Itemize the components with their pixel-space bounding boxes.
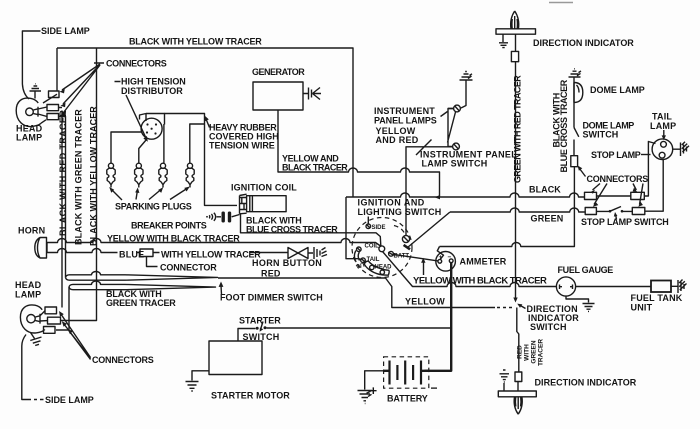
switch arm to green bus (404, 212, 450, 249)
horn button contacts (288, 248, 313, 259)
svg-text:TAIL: TAIL (652, 112, 672, 122)
wire: side terminal stub (367, 217, 369, 225)
direction indicator bottom: arm bar (498, 391, 536, 397)
distributor label pointer (115, 82, 148, 142)
connector: stop lamp (571, 156, 578, 167)
wire: left column vertical black/green (59, 117, 66, 278)
label: GREEN (531, 214, 564, 224)
svg-text:TRACER: TRACER (538, 339, 545, 366)
label: HIGH TENSION DISTRIBUTOR (121, 77, 186, 97)
battery plates (384, 361, 429, 385)
svg-text:SPARKING PLUGS: SPARKING PLUGS (115, 202, 192, 212)
connectors: black wire left (585, 192, 597, 199)
label: RED (261, 269, 281, 279)
label: GENERATOR (252, 67, 305, 77)
switch centre terminal (379, 246, 385, 252)
svg-text:COIL: COIL (365, 244, 380, 250)
svg-text:+: + (439, 254, 443, 261)
ground: bottom headlamp (angled) (30, 333, 41, 346)
svg-text:AND RED: AND RED (376, 135, 419, 145)
svg-text:GENERATOR: GENERATOR (252, 67, 305, 77)
svg-text:BLUE CROSS TRACER: BLUE CROSS TRACER (246, 225, 338, 235)
ignition and lighting switch dashed circle (352, 218, 412, 278)
dashed lever arc top right (394, 226, 406, 237)
starter motor box (209, 341, 262, 375)
pointers: bottom connectors label (59, 311, 91, 360)
horn body (35, 238, 47, 259)
label: BREAKER POINTS (131, 221, 207, 231)
label: BLACK WITH YELLOW TRACER vertical (89, 106, 99, 246)
connectors: green wire right (632, 208, 645, 215)
label: HORN (18, 226, 45, 236)
direction indicator bottom: leaf arrow (514, 397, 522, 414)
label: TAIL LAMP (650, 112, 676, 132)
svg-text:PANEL LAMPS: PANEL LAMPS (374, 116, 437, 126)
junction arrowhead at bus joint (435, 195, 441, 199)
connector: bottom headlamp 3 (44, 327, 56, 334)
label: FUEL TANK UNIT (631, 293, 683, 313)
label: YELLOW WITH BLACK TRACER (batt) (413, 276, 547, 287)
svg-text:LAMP: LAMP (15, 290, 41, 300)
wire: left column vertical black/yellow (61, 48, 97, 321)
label: BLACK WITH GREEN TRACER (dimmer) (106, 289, 176, 308)
dome lamp (574, 83, 583, 103)
wire: horn bottom blue/yellow (47, 249, 288, 253)
label: DIRECTION INDICATOR top (533, 38, 634, 48)
svg-text:GREEN: GREEN (531, 214, 564, 224)
label: BATTERY (387, 394, 428, 404)
svg-text:DIRECTION INDICATOR: DIRECTION INDICATOR (533, 38, 634, 48)
pointer: tail lamp label arrow (662, 130, 666, 140)
svg-text:TENSION WIRE: TENSION WIRE (209, 141, 275, 151)
label: STOP LAMP (591, 150, 641, 160)
HT lead pointer (heavy rubber label) (205, 116, 210, 128)
label: HORN BUTTON (252, 258, 322, 268)
wire: tail feed from black bus (346, 197, 361, 259)
label: YELLOW AND RED (376, 126, 419, 145)
svg-text:SIDE LAMP: SIDE LAMP (45, 395, 94, 405)
sparking plug 4 (186, 163, 194, 187)
label: DOME LAMP SWITCH (583, 121, 635, 140)
svg-text:−: − (431, 381, 438, 395)
fuel tank unit box (651, 281, 671, 293)
svg-text:LAMP: LAMP (650, 121, 676, 131)
connector: top headlamp 3 (47, 114, 59, 120)
pointer: yellow with black tracer label arrow (421, 258, 425, 275)
pointer: stop lamp switch label (614, 212, 618, 220)
label: FOOT DIMMER SWITCH (220, 293, 323, 303)
wire: battery cable (425, 263, 452, 371)
svg-text:RED: RED (517, 345, 524, 359)
wire: green w red tracer main vertical (513, 34, 517, 302)
connector bracket pointer (147, 257, 158, 267)
ground: battery (358, 371, 384, 404)
svg-text:DOME LAMP: DOME LAMP (590, 85, 645, 95)
switch tail terminal (361, 258, 366, 263)
svg-text:HIGH TENSION: HIGH TENSION (121, 77, 186, 87)
label: BLACK WITH RED TRACER vertical (58, 110, 68, 236)
foot dimmer arrow top (red) (66, 272, 218, 281)
pointer: direction indicator switch label (517, 304, 525, 309)
svg-text:FUEL TANK: FUEL TANK (631, 293, 683, 303)
svg-text:GREEN TRACER: GREEN TRACER (106, 298, 176, 308)
connector: bottom headlamp 1 (45, 307, 57, 314)
instrument panel lamp bottom (453, 143, 460, 150)
plug lead 3 (163, 124, 165, 163)
ground: tail lamp (673, 142, 689, 156)
svg-text:STARTER MOTOR: STARTER MOTOR (211, 391, 290, 401)
pointers: connectors label to rects (60, 63, 105, 116)
label: YELLOW AND BLACK TRACER (282, 154, 348, 173)
label: AMMETER (460, 257, 507, 267)
label: STARTER SWITCH (239, 316, 281, 343)
label: CONNECTORS top left (106, 59, 167, 69)
svg-text:SWITCH: SWITCH (243, 332, 280, 342)
svg-text:CONNECTORS: CONNECTORS (92, 355, 154, 365)
label: BLACK WITH vertical (552, 93, 562, 148)
svg-text:SWITCH: SWITCH (530, 322, 567, 332)
breaker points symbol (206, 212, 239, 223)
label: SIDE LAMP bottom (45, 395, 94, 405)
label: SIDE LAMP top (41, 26, 90, 36)
svg-text:BLACK WITH YELLOW TRACER: BLACK WITH YELLOW TRACER (89, 106, 99, 246)
pointers: connectors label right (578, 166, 644, 207)
svg-text:YELLOW WITH BLACK TRACER: YELLOW WITH BLACK TRACER (107, 234, 240, 244)
label: FUEL GAUGE (558, 265, 614, 275)
svg-text:LIGHTING SWITCH: LIGHTING SWITCH (358, 207, 442, 217)
svg-text:HORN: HORN (18, 226, 45, 236)
svg-text:BATTERY: BATTERY (387, 394, 428, 404)
instrument panel lamp top (448, 105, 460, 112)
scan mark top edge (549, 2, 573, 4)
wire: yellow dashes into direction switch (497, 307, 512, 309)
plug lead 2 (139, 140, 147, 164)
svg-text:TAIL: TAIL (367, 257, 380, 263)
ground: instrument panel (460, 72, 473, 81)
svg-text:FUEL GAUGE: FUEL GAUGE (558, 265, 614, 275)
svg-text:BLUE: BLUE (119, 250, 144, 260)
svg-text:WITH YELLOW TRACER: WITH YELLOW TRACER (161, 250, 261, 260)
svg-text:BREAKER POINTS: BREAKER POINTS (131, 221, 207, 231)
label: HEAD LAMP bottom (15, 280, 42, 300)
switch head contact bar (354, 251, 389, 276)
svg-text:LAMP SWITCH: LAMP SWITCH (422, 159, 488, 169)
svg-text:AMMETER: AMMETER (460, 257, 507, 267)
svg-text:DISTRIBUTOR: DISTRIBUTOR (121, 86, 183, 96)
battery polarity (370, 381, 438, 398)
ground: fuel tank unit (671, 280, 687, 294)
label: DOME LAMP (590, 85, 645, 95)
connectors: green wire left (585, 208, 596, 215)
wire: top headlamp rect2 link (43, 94, 62, 107)
wire: left column vertical dimmer return (56, 287, 69, 330)
label: BLACK (529, 185, 561, 195)
fuel gauge ground (566, 296, 595, 311)
label: BLACK WITH BLUE CROSS TRACER (coil) (246, 216, 338, 235)
wire: instrument lamps bracket (448, 109, 456, 147)
svg-text:STARTER: STARTER (239, 316, 281, 326)
sparking plug 2 (135, 163, 143, 187)
wire: side lamp top feed (22, 31, 40, 99)
sparking plug 1 (107, 163, 115, 187)
label: DIRECTION INDICATOR bottom (535, 378, 637, 388)
wire: instrument lamp drop (406, 147, 453, 236)
stop lamp switch blade (609, 207, 624, 213)
svg-text:BLACK WITH YELLOW TRACER: BLACK WITH YELLOW TRACER (129, 37, 262, 47)
wire: coil black/blue cross tracer (241, 214, 381, 246)
distributor body (140, 114, 165, 140)
label: YELLOW WITH BLACK TRACER (horn wire) (107, 234, 240, 244)
foot dimmer arrow bottom (black/green) (69, 281, 216, 290)
switch batt terminal (388, 251, 394, 256)
wire: dome lamp vertical top (573, 78, 575, 156)
wire: black with yellow tracer top bus (57, 48, 353, 197)
label: STOP LAMP SWITCH (581, 217, 669, 227)
svg-text:HORN BUTTON: HORN BUTTON (252, 258, 322, 268)
ground: dome lamp (569, 69, 582, 77)
label: IGNITION COIL (231, 183, 297, 193)
generator terminal (303, 88, 321, 100)
svg-text:GREEN WITH RED TRACER: GREEN WITH RED TRACER (513, 75, 523, 183)
svg-text:LAMP: LAMP (16, 133, 42, 143)
switch coil terminal (357, 247, 362, 252)
wire: connector drop from top bus (56, 48, 58, 91)
svg-text:−: − (448, 254, 452, 261)
connector: bottom direction indicator (515, 372, 522, 382)
ignition coil body (240, 194, 287, 214)
wire: black bus horizontal (346, 142, 656, 198)
ground: top direction indicator small (499, 34, 508, 47)
pointer: stop lamp label dash (641, 154, 651, 156)
svg-text:BLACK WITH GREEN TRACER: BLACK WITH GREEN TRACER (74, 109, 84, 245)
label: GREEN WITH RED TRACER vertical (513, 75, 523, 183)
label: SPARKING PLUGS (115, 202, 192, 212)
switch side terminal (366, 224, 371, 229)
label: BLUE CROSS TRACER vertical (559, 79, 569, 172)
dome lamp switch blade (574, 128, 579, 137)
wire: batt to ammeter diagonal (393, 254, 438, 261)
battery dashed box (384, 357, 429, 388)
label: STARTER MOTOR (211, 391, 290, 401)
switch aux terminal (instrument feed) (402, 235, 409, 242)
head lamp bottom shell (20, 305, 47, 333)
wire: bottom side lamp feed (22, 335, 44, 400)
svg-text:CONNECTOR: CONNECTOR (160, 263, 217, 273)
starter switch contacts (256, 322, 267, 332)
svg-text:SIDE: SIDE (372, 225, 386, 231)
svg-text:IGNITION COIL: IGNITION COIL (231, 183, 297, 193)
svg-text:CONNECTORS: CONNECTORS (587, 174, 649, 184)
ground: bottom direction indicator (500, 370, 510, 391)
label: WITH YELLOW TRACER (161, 250, 261, 260)
pointer+blade: instrument panel lamp switch (416, 140, 432, 156)
ammeter (436, 251, 456, 271)
ground: starter motor (186, 371, 210, 391)
wire: instrument ground stem (461, 80, 466, 108)
connector: top headlamp 2 (47, 105, 59, 111)
svg-text:BLUE CROSS TRACER: BLUE CROSS TRACER (559, 79, 569, 172)
wire: green bus (450, 160, 663, 212)
svg-text:CONNECTORS: CONNECTORS (106, 59, 167, 69)
label: IGNITION AND LIGHTING SWITCH (358, 198, 442, 218)
label: DIRECTION INDICATOR SWITCH (527, 304, 580, 332)
wire: switch centre to fuel gauge yellow/black (383, 252, 652, 287)
label: HEAVY RUBBER COVERED HIGH TENSION WIRE (209, 123, 279, 151)
HT lead to coil (165, 114, 238, 206)
svg-text:DIRECTION INDICATOR: DIRECTION INDICATOR (535, 378, 637, 388)
connector: bottom headlamp 2 (48, 317, 61, 324)
wire: horn top yellow/black tracer (47, 239, 381, 247)
fuel gauge (556, 277, 575, 296)
wire: direction indicator switch lower (517, 308, 519, 392)
direction indicator top: leaf arrow (511, 11, 519, 29)
connector: top headlamp 1 (49, 91, 60, 98)
svg-text:BLACK WITH RED TRACER: BLACK WITH RED TRACER (58, 110, 68, 236)
connector: top direction indicator (511, 51, 518, 61)
ground: horn button (314, 247, 327, 259)
label: CONNECTORS bottom (92, 355, 154, 365)
svg-text:FOOT DIMMER SWITCH: FOOT DIMMER SWITCH (220, 293, 323, 303)
ground: top headlamp (30, 84, 42, 99)
direction indicator top: arm bar (496, 29, 536, 34)
tail lamp (652, 139, 673, 160)
svg-text:UNIT: UNIT (631, 303, 653, 313)
connectors: black wire right (631, 192, 645, 199)
plug lead 4 (190, 124, 205, 163)
svg-text:SWITCH: SWITCH (583, 130, 619, 140)
connector: blue wire (140, 249, 153, 257)
svg-text:INSTRUMENT: INSTRUMENT (374, 106, 435, 116)
label: INSTRUMENT PANEL LAMP SWITCH (420, 150, 517, 169)
label: CONNECTOR (160, 263, 217, 273)
label: BLACK WITH GREEN TRACER vertical (74, 109, 84, 245)
wire: ammeter to stop lamp vertical (440, 167, 575, 247)
label: INSTRUMENT PANEL LAMPS (374, 106, 437, 126)
svg-text:IGNITION AND: IGNITION AND (358, 198, 425, 208)
label: CONNECTORS right (587, 174, 649, 184)
plug lead 1 (111, 132, 142, 163)
svg-text:YELLOW WITH BLACK TRACER: YELLOW WITH BLACK TRACER (413, 276, 547, 287)
label: YELLOW (405, 297, 445, 307)
svg-text:BLACK: BLACK (529, 185, 561, 195)
svg-text:HEAD: HEAD (15, 280, 42, 290)
pointer: instrument panel lamps label (441, 112, 448, 117)
sparking plug 3 (159, 163, 167, 187)
wire: generator drop + yellow and black tracer bus (278, 110, 440, 197)
foot dimmer pointer arrow (219, 282, 224, 295)
wire: red dimmer to head terminal (218, 278, 495, 308)
wire: left column vertical black/red (61, 111, 63, 308)
svg-text:SIDE LAMP: SIDE LAMP (41, 26, 90, 36)
label: BLUE (119, 250, 144, 260)
svg-text:STOP LAMP SWITCH: STOP LAMP SWITCH (581, 217, 669, 227)
svg-text:YELLOW: YELLOW (405, 297, 445, 307)
label: RED WITH GREEN TRACER vertical small (517, 339, 545, 366)
label: switch terminals (356, 225, 410, 271)
svg-text:GREEN: GREEN (531, 340, 538, 363)
svg-text:BATT: BATT (394, 254, 410, 260)
wire: starter switch run (238, 328, 451, 341)
svg-text:WITH: WITH (524, 344, 531, 361)
pointers: sparking plugs label (109, 187, 190, 201)
svg-text:BLACK TRACER: BLACK TRACER (282, 163, 348, 173)
label: BLACK WITH YELLOW TRACER top (129, 37, 262, 47)
head lamp top shell (16, 98, 47, 126)
wire: ammeter hook (437, 247, 443, 260)
svg-text:RED: RED (261, 269, 281, 279)
svg-text:STOP LAMP: STOP LAMP (591, 150, 641, 160)
generator box (253, 82, 303, 110)
svg-text:HEAD: HEAD (375, 265, 393, 271)
label: HEAD LAMP top (16, 124, 43, 143)
